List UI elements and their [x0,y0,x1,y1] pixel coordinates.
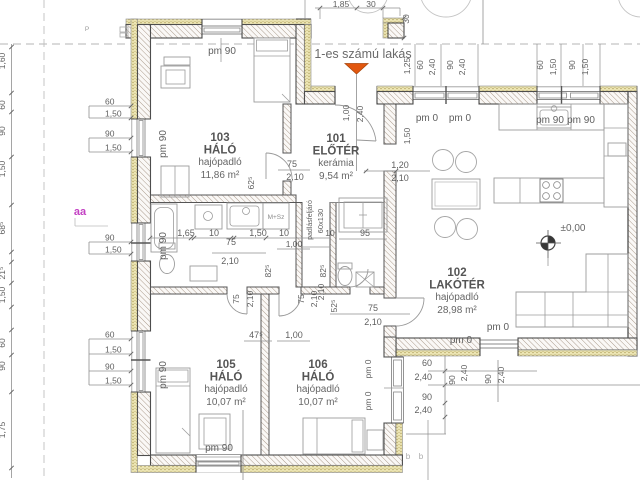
svg-text:2,10: 2,10 [221,256,239,266]
svg-text:28,98 m²: 28,98 m² [437,305,477,316]
svg-text:75: 75 [231,294,241,304]
svg-text:11,86 m²: 11,86 m² [201,170,240,181]
svg-text:pm 90: pm 90 [567,115,595,126]
svg-text:M+Sz: M+Sz [268,214,285,221]
svg-text:2,40: 2,40 [355,105,365,122]
svg-text:1,50: 1,50 [105,109,122,119]
svg-text:90: 90 [447,375,457,385]
svg-text:1,50: 1,50 [105,376,122,386]
svg-text:hajópadló: hajópadló [204,384,248,395]
svg-text:10: 10 [279,228,289,238]
svg-text:1,75: 1,75 [0,421,7,438]
svg-text:90: 90 [445,60,455,70]
svg-text:±0,00: ±0,00 [561,223,586,234]
svg-text:pm 0: pm 0 [363,391,373,410]
svg-text:1,50: 1,50 [0,286,7,303]
svg-text:1,20: 1,20 [391,160,409,170]
svg-text:1,00: 1,00 [341,104,351,121]
svg-text:pm 90: pm 90 [208,46,236,57]
svg-text:2,40: 2,40 [427,58,437,75]
svg-text:pm 90: pm 90 [205,443,233,454]
svg-text:ELŐTÉR: ELŐTÉR [313,145,360,158]
svg-text:P: P [85,26,89,33]
svg-text:2,40: 2,40 [459,364,469,381]
svg-text:10: 10 [325,228,335,238]
svg-text:90: 90 [105,233,115,243]
svg-text:10,07 m²: 10,07 m² [298,397,338,408]
svg-text:90: 90 [0,361,7,371]
svg-text:47⁵: 47⁵ [249,330,263,340]
svg-text:1,50: 1,50 [402,127,412,144]
svg-text:1,50: 1,50 [105,245,122,255]
svg-text:2,40: 2,40 [414,405,432,415]
svg-text:82⁵: 82⁵ [263,265,273,278]
svg-text:2,40: 2,40 [496,366,506,383]
svg-text:pm 90: pm 90 [158,361,169,389]
svg-text:90: 90 [483,374,493,384]
svg-text:pm 90: pm 90 [158,130,169,158]
svg-text:pm 0: pm 0 [450,335,473,346]
svg-text:10: 10 [209,228,219,238]
svg-text:60: 60 [415,60,425,70]
svg-text:padlásfeljáró: padlásfeljáró [307,200,314,240]
svg-text:9,54 m²: 9,54 m² [319,171,354,182]
svg-text:68⁵: 68⁵ [0,222,7,235]
svg-text:106: 106 [308,359,327,371]
svg-text:1,50: 1,50 [580,58,590,75]
svg-text:HÁLÓ: HÁLÓ [204,144,237,157]
svg-text:75: 75 [226,237,236,247]
svg-text:2,10: 2,10 [286,172,304,182]
svg-text:1,65: 1,65 [177,228,195,238]
svg-text:30: 30 [366,0,376,9]
svg-text:75: 75 [368,303,378,313]
svg-text:90: 90 [422,392,432,402]
svg-text:HÁLÓ: HÁLÓ [210,371,243,384]
svg-text:90: 90 [0,126,7,136]
svg-text:75: 75 [296,294,306,304]
svg-text:HÁLÓ: HÁLÓ [302,371,335,384]
svg-text:pm 0: pm 0 [363,359,373,378]
svg-text:60: 60 [0,338,7,348]
svg-text:90: 90 [105,129,115,139]
svg-text:1,00: 1,00 [286,239,303,249]
svg-text:95: 95 [360,228,370,238]
svg-text:10,07 m²: 10,07 m² [206,397,246,408]
svg-text:2,10: 2,10 [245,290,255,307]
svg-text:2,10: 2,10 [364,317,382,327]
svg-text:hajópadló: hajópadló [296,384,340,395]
svg-text:105: 105 [216,359,236,371]
svg-text:1,00: 1,00 [285,330,303,340]
svg-text:60: 60 [422,358,432,368]
svg-text:kerámia: kerámia [318,158,354,169]
svg-text:1,50: 1,50 [0,160,7,177]
svg-text:1,85: 1,85 [333,0,350,9]
svg-text:21⁵: 21⁵ [0,267,7,280]
svg-text:82⁵: 82⁵ [318,265,328,278]
svg-text:101: 101 [326,133,346,145]
svg-text:60x130: 60x130 [316,209,325,234]
svg-text:1,50: 1,50 [105,143,122,153]
svg-text:60: 60 [535,60,545,70]
svg-text:pm 90: pm 90 [158,232,169,260]
svg-text:2,40: 2,40 [414,372,432,382]
svg-text:1,50: 1,50 [548,58,558,75]
svg-text:pm 0: pm 0 [449,113,472,124]
svg-text:102: 102 [447,267,466,279]
svg-text:b: b [406,452,411,461]
svg-text:1,50: 1,50 [249,228,267,238]
svg-text:90: 90 [567,60,577,70]
svg-text:2,10: 2,10 [391,173,409,183]
svg-text:2,40: 2,40 [457,58,467,75]
svg-text:aa: aa [74,206,87,218]
svg-text:60: 60 [0,100,7,110]
svg-text:1,50: 1,50 [105,345,122,355]
svg-text:pm 0: pm 0 [416,113,439,124]
svg-text:1-es számú lakás: 1-es számú lakás [314,47,411,61]
svg-text:60: 60 [105,330,115,340]
svg-text:pm 90: pm 90 [536,115,564,126]
svg-text:2,10: 2,10 [316,283,326,300]
svg-text:1,60: 1,60 [0,52,7,69]
svg-text:pm 0: pm 0 [487,322,510,333]
svg-text:60: 60 [105,97,115,107]
svg-text:b: b [419,452,424,461]
svg-text:103: 103 [210,132,229,144]
svg-text:62⁵: 62⁵ [246,177,256,190]
svg-text:hajópadló: hajópadló [198,157,242,168]
svg-text:90: 90 [105,362,115,372]
svg-text:LAKÓTÉR: LAKÓTÉR [429,279,485,292]
svg-text:52⁵: 52⁵ [329,300,339,313]
svg-text:75: 75 [287,159,297,169]
svg-text:hajópadló: hajópadló [435,292,479,303]
